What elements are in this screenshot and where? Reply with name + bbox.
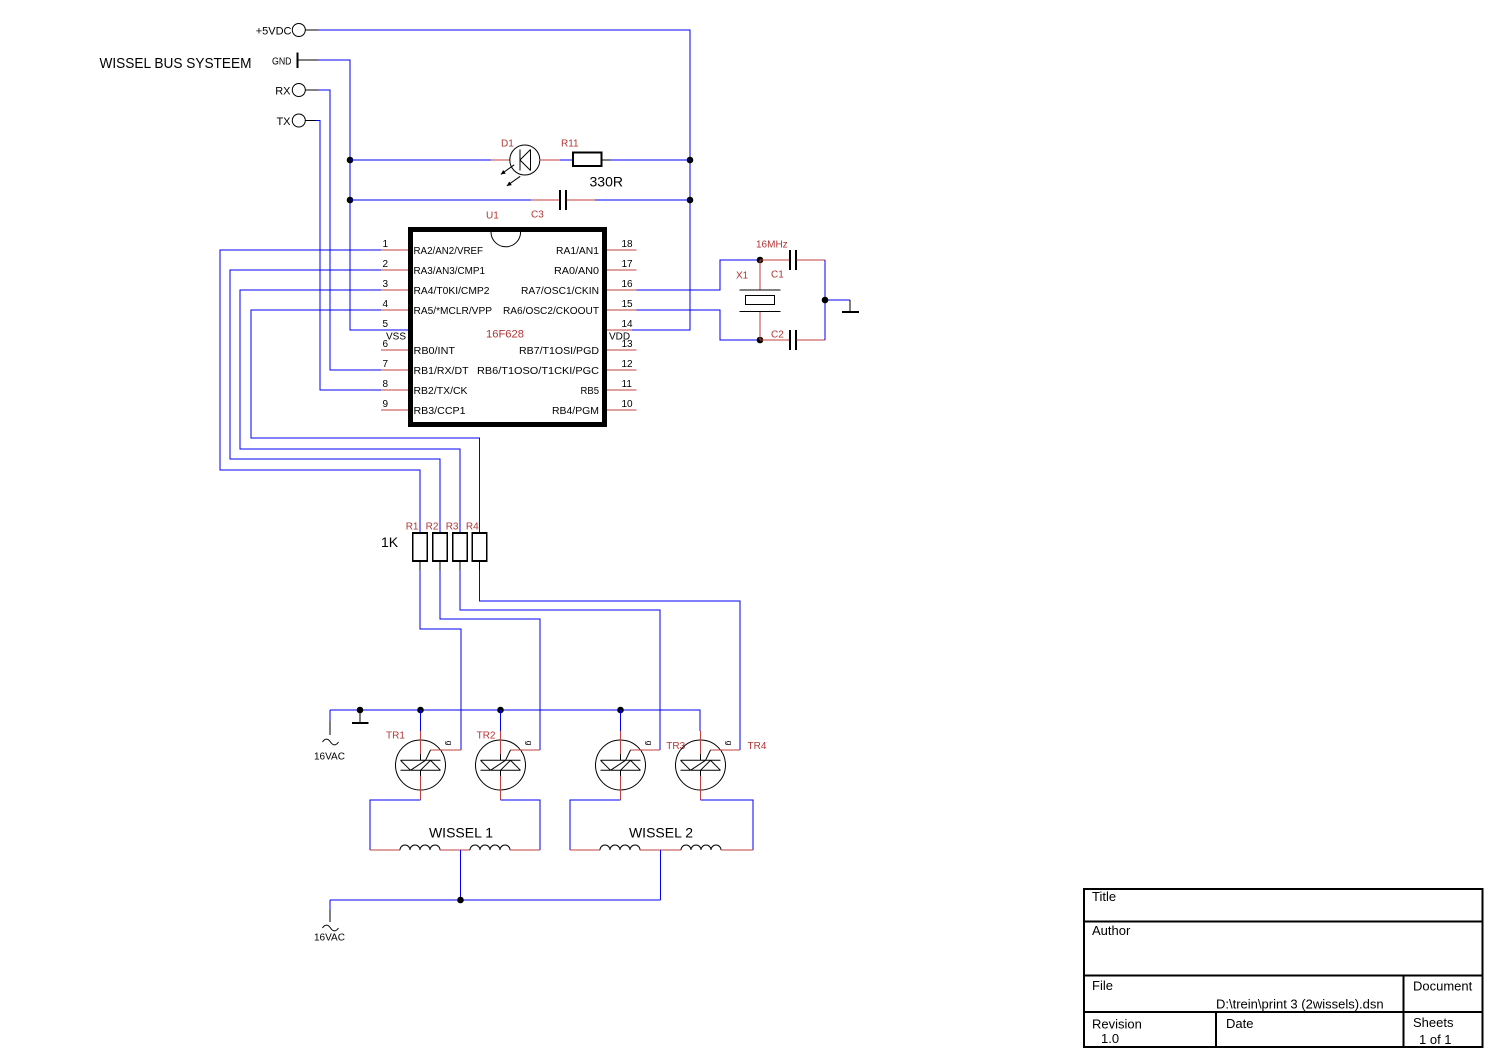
svg-text:R1: R1 xyxy=(406,522,419,533)
svg-text:17: 17 xyxy=(622,259,634,270)
wire TX to pin RB2 xyxy=(316,121,381,391)
svg-text:RA5/*MCLR/VPP: RA5/*MCLR/VPP xyxy=(414,306,493,317)
AC source 16VAC (top) xyxy=(314,710,345,763)
wire TR4 to WISSEL2 right xyxy=(701,800,754,850)
svg-text:RB0/INT: RB0/INT xyxy=(414,346,456,357)
svg-text:R2: R2 xyxy=(426,522,439,533)
pin 13 RB7/T1OSI/PGD xyxy=(519,339,637,357)
svg-text:12: 12 xyxy=(622,359,634,370)
wire bus to TR2 xyxy=(500,710,502,731)
svg-text:TR2: TR2 xyxy=(477,731,496,742)
wire C1-C2 right rail xyxy=(825,260,850,340)
pin 9 RB3/CCP1 xyxy=(381,399,466,417)
capacitor C2 xyxy=(760,330,825,350)
title block frame xyxy=(1083,889,1484,1048)
wire bus to TR1 xyxy=(420,710,422,731)
AC source 16VAC (bottom) xyxy=(314,900,345,944)
svg-text:g: g xyxy=(725,741,735,746)
svg-text:D:\trein\print 3 (2wissels).ds: D:\trein\print 3 (2wissels).dsn xyxy=(1216,997,1384,1012)
wire R1 to TR1 gate xyxy=(420,570,461,750)
svg-text:1K: 1K xyxy=(381,534,399,550)
pin 4 RA5/*MCLR/VPP xyxy=(381,299,492,317)
svg-text:1: 1 xyxy=(382,239,388,250)
junction bus/TR1 xyxy=(417,707,424,714)
svg-text:+5VDC: +5VDC xyxy=(256,26,292,38)
svg-text:16F628: 16F628 xyxy=(486,329,524,341)
svg-text:X1: X1 xyxy=(736,271,749,282)
svg-text:WISSEL BUS SYSTEEM: WISSEL BUS SYSTEEM xyxy=(100,55,252,72)
svg-text:14: 14 xyxy=(622,319,634,330)
wire C3 to +5V rail xyxy=(595,199,690,201)
svg-text:Sheets: Sheets xyxy=(1413,1015,1454,1030)
terminal TX xyxy=(276,114,316,128)
svg-text:C3: C3 xyxy=(531,210,544,221)
wire pin1 to R1 xyxy=(220,250,420,533)
wire pin3 to R3 xyxy=(240,290,460,533)
svg-text:RB4/PGM: RB4/PGM xyxy=(552,406,599,417)
svg-text:4: 4 xyxy=(382,299,388,310)
ground (AC bus) xyxy=(352,710,369,723)
svg-text:VSS: VSS xyxy=(386,332,406,343)
svg-text:7: 7 xyxy=(382,359,388,370)
svg-text:5: 5 xyxy=(382,319,388,330)
coil WISSEL2 A xyxy=(570,845,681,850)
svg-text:RX: RX xyxy=(275,86,291,98)
svg-text:RA2/AN2/VREF: RA2/AN2/VREF xyxy=(414,246,484,257)
svg-text:18: 18 xyxy=(622,239,634,250)
wire TR1 to WISSEL1 left xyxy=(370,800,421,850)
svg-text:C2: C2 xyxy=(771,330,784,341)
junction crystal bottom xyxy=(757,337,764,344)
svg-text:1 of 1: 1 of 1 xyxy=(1419,1032,1452,1047)
pin 1 RA2/AN2/VREF xyxy=(381,239,483,257)
resistor R1 xyxy=(413,533,428,570)
resistor R2 xyxy=(433,533,448,570)
svg-text:RA6/OSC2/CKOOUT: RA6/OSC2/CKOOUT xyxy=(503,306,599,317)
svg-text:16VAC: 16VAC xyxy=(314,933,345,944)
svg-text:11: 11 xyxy=(622,379,633,390)
wire pin2 to R2 xyxy=(230,270,440,533)
pin 15 RA6/OSC2/CKOOUT xyxy=(503,299,637,317)
transistor TR4 (triac) xyxy=(676,731,741,800)
svg-text:GND: GND xyxy=(272,57,292,68)
svg-text:RA1/AN1: RA1/AN1 xyxy=(556,246,599,257)
pin 10 RB4/PGM xyxy=(552,399,637,417)
pin 17 RA0/AN0 xyxy=(554,259,637,277)
svg-text:330R: 330R xyxy=(590,174,623,190)
svg-text:TX: TX xyxy=(276,116,291,128)
transistor TR3 (triac) xyxy=(596,731,661,800)
svg-text:R4: R4 xyxy=(466,522,479,533)
junction +5V rail / LED row xyxy=(687,157,694,164)
svg-text:1.0: 1.0 xyxy=(1101,1031,1119,1046)
svg-text:VDD: VDD xyxy=(609,332,630,343)
svg-text:3: 3 xyxy=(382,279,388,290)
resistor R4 xyxy=(472,533,487,570)
svg-text:8: 8 xyxy=(382,379,388,390)
coil WISSEL1 B xyxy=(470,845,540,850)
junction bus/TR3 xyxy=(617,707,624,714)
pin 5 VSS xyxy=(382,319,406,343)
svg-text:g: g xyxy=(645,741,655,746)
pin 18 RA1/AN1 xyxy=(556,239,637,257)
svg-text:R3: R3 xyxy=(446,522,459,533)
junction bus/ground xyxy=(357,707,364,714)
wire LED row left xyxy=(350,159,491,161)
svg-text:TR3: TR3 xyxy=(666,741,685,752)
capacitor C3 xyxy=(531,190,595,210)
svg-text:RB3/CCP1: RB3/CCP1 xyxy=(414,406,466,417)
wire R4 to TR4 gate xyxy=(480,570,741,750)
resistor R11 xyxy=(560,153,610,167)
terminal +5VDC xyxy=(256,24,318,38)
svg-text:RB1/RX/DT: RB1/RX/DT xyxy=(414,366,469,377)
coil WISSEL2 B xyxy=(681,845,753,850)
wire bottom AC bus xyxy=(330,899,661,901)
terminal RX xyxy=(275,84,318,98)
wire TR2 to WISSEL1 right xyxy=(501,800,541,850)
wire R2 to TR2 gate xyxy=(440,570,540,750)
coil WISSEL1 A xyxy=(370,845,470,850)
wire pin16 OSC1 to crystal xyxy=(637,260,761,290)
wire WISSEL2 node down xyxy=(660,850,662,900)
svg-text:WISSEL 1: WISSEL 1 xyxy=(429,825,493,841)
wire C3 row left xyxy=(350,199,531,201)
pin 3 RA4/T0KI/CMP2 xyxy=(381,279,490,297)
svg-text:RA0/AN0: RA0/AN0 xyxy=(554,266,599,277)
wire WISSEL1 node down xyxy=(460,850,462,900)
wire RX to pin RB1 xyxy=(318,90,381,370)
wire pin4 to R4 xyxy=(251,310,480,533)
svg-text:RB2/TX/CK: RB2/TX/CK xyxy=(414,386,468,397)
capacitor C1 xyxy=(760,250,825,270)
wire pin15 OSC2 to crystal xyxy=(637,310,761,340)
IC U1 16F628 body xyxy=(411,230,605,425)
svg-text:10: 10 xyxy=(622,399,634,410)
svg-text:RA4/T0KI/CMP2: RA4/T0KI/CMP2 xyxy=(414,286,490,297)
pin 12 RB6/T1OSO/T1CKI/PGC xyxy=(477,359,637,377)
svg-text:D1: D1 xyxy=(501,139,514,150)
svg-text:WISSEL 2: WISSEL 2 xyxy=(629,825,693,841)
junction bottom bus xyxy=(457,897,464,904)
svg-text:R11: R11 xyxy=(561,139,579,150)
resistor R3 xyxy=(453,533,468,570)
transistor TR2 (triac) xyxy=(476,731,541,800)
junction +5V rail / C3 row xyxy=(687,197,694,204)
wire TR3 to WISSEL2 left xyxy=(570,800,621,850)
pin 6 RB0/INT xyxy=(381,339,455,357)
svg-text:TR4: TR4 xyxy=(748,741,767,752)
svg-text:Date: Date xyxy=(1226,1016,1253,1031)
pin 14 VDD xyxy=(607,319,633,343)
wire R3 to TR3 gate xyxy=(460,570,660,750)
wire +5VDC rail to VDD xyxy=(318,30,690,330)
LED D1 xyxy=(491,145,560,186)
pin 11 RB5 xyxy=(581,379,637,397)
ground (crystal) xyxy=(842,300,859,312)
svg-text:File: File xyxy=(1092,978,1113,993)
svg-text:Document: Document xyxy=(1413,979,1473,994)
junction GND rail / LED row xyxy=(347,157,354,164)
pin 2 RA3/AN3/CMP1 xyxy=(381,259,485,277)
svg-text:Title: Title xyxy=(1092,889,1116,904)
junction right rail xyxy=(822,297,829,304)
svg-text:16VAC: 16VAC xyxy=(314,752,345,763)
junction GND rail / C3 row xyxy=(347,197,354,204)
svg-text:16: 16 xyxy=(622,279,634,290)
junction crystal top xyxy=(757,257,764,264)
pin 8 RB2/TX/CK xyxy=(381,379,468,397)
pin 16 RA7/OSC1/CKIN xyxy=(521,279,637,297)
svg-text:g: g xyxy=(525,741,535,746)
svg-text:Author: Author xyxy=(1092,923,1131,938)
terminal GND xyxy=(272,53,318,69)
svg-text:16MHz: 16MHz xyxy=(756,240,788,251)
svg-text:g: g xyxy=(445,741,455,746)
wire top AC bus xyxy=(330,710,700,731)
transistor TR1 (triac) xyxy=(396,731,462,800)
svg-text:C1: C1 xyxy=(771,270,784,281)
svg-text:RB6/T1OSO/T1CKI/PGC: RB6/T1OSO/T1CKI/PGC xyxy=(477,366,599,377)
svg-text:RB7/T1OSI/PGD: RB7/T1OSI/PGD xyxy=(519,346,599,357)
svg-text:RA3/AN3/CMP1: RA3/AN3/CMP1 xyxy=(414,266,486,277)
junction bus/TR2 xyxy=(497,707,504,714)
wire R11 to +5V rail xyxy=(610,159,690,161)
svg-text:2: 2 xyxy=(382,259,388,270)
crystal X1 xyxy=(740,260,781,340)
pin 7 RB1/RX/DT xyxy=(381,359,469,377)
wire GND rail to VSS xyxy=(318,60,408,330)
svg-text:RA7/OSC1/CKIN: RA7/OSC1/CKIN xyxy=(521,286,599,297)
wire bus to TR3 xyxy=(620,710,622,731)
svg-text:Revision: Revision xyxy=(1092,1017,1142,1032)
svg-text:RB5: RB5 xyxy=(581,386,600,397)
svg-text:9: 9 xyxy=(382,399,388,410)
svg-text:U1: U1 xyxy=(486,211,499,222)
svg-text:TR1: TR1 xyxy=(386,731,405,742)
svg-text:15: 15 xyxy=(622,299,634,310)
